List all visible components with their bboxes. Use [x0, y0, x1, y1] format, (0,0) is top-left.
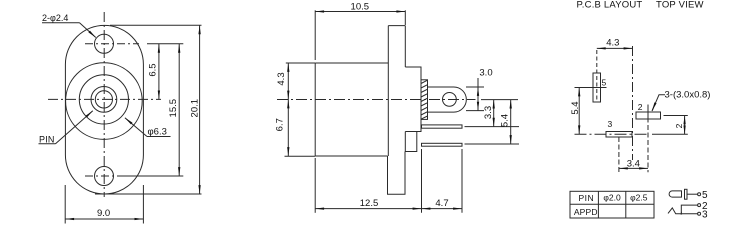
collar hatched — [421, 80, 428, 120]
svg-text:P.C.B LAYOUT: P.C.B LAYOUT — [577, 0, 643, 10]
svg-text:φ2.5: φ2.5 — [630, 192, 648, 202]
svg-text:10.5: 10.5 — [351, 1, 370, 12]
body left — [314, 63, 316, 156]
pin 2 wire — [681, 205, 697, 213]
svg-text:PIN: PIN — [39, 135, 55, 145]
dim 5.4 line — [510, 100, 512, 144]
dim 4.3 line — [287, 63, 289, 100]
top mounting hole — [95, 34, 114, 53]
slot 3 — [606, 132, 632, 138]
slot 5 vertical extension — [596, 50, 598, 102]
pin collar circle — [91, 87, 117, 113]
svg-text:3.4: 3.4 — [627, 158, 640, 169]
collar hatch lines — [421, 80, 428, 119]
barrel outer circle — [66, 63, 143, 140]
dim 3.0 extension top — [466, 86, 484, 88]
extension line flange bottom — [95, 193, 202, 195]
dim 15.5 line — [178, 44, 180, 176]
svg-text:3.0: 3.0 — [479, 67, 492, 78]
svg-text:φ6.3: φ6.3 — [148, 127, 167, 138]
table frame — [570, 191, 654, 218]
svg-text:2: 2 — [638, 102, 643, 112]
slot 5 center tick — [575, 87, 607, 89]
bottom hole centerline — [85, 175, 122, 177]
svg-text:4.3: 4.3 — [606, 38, 619, 49]
body bottom — [315, 155, 387, 157]
slot 3 centerline — [575, 133, 650, 135]
body top — [315, 62, 388, 64]
flange outline (stadium) — [65, 25, 143, 194]
plug flange bar — [685, 189, 688, 199]
body/flange separation — [387, 26, 389, 156]
mounting tab below — [388, 152, 406, 195]
svg-text:3.3: 3.3 — [483, 106, 494, 119]
dim 4.3 extension — [286, 62, 315, 64]
dim 9.0 line — [65, 218, 143, 220]
centerline — [277, 99, 476, 101]
svg-text:φ2.0: φ2.0 — [603, 192, 621, 202]
dim 20.1 line — [199, 25, 201, 194]
extension line bottom hole — [122, 175, 183, 177]
dim 3.3 line — [493, 100, 495, 127]
dim 4.7 line — [422, 208, 463, 210]
label PIN leader — [39, 143, 56, 145]
svg-text:6.5: 6.5 — [147, 63, 158, 76]
dim 3.4 line — [619, 167, 648, 169]
leg B extension — [465, 143, 520, 145]
svg-text:20.1: 20.1 — [190, 99, 201, 118]
pin 3 wire with spring — [668, 208, 698, 214]
vertical centerline — [103, 12, 105, 197]
pin 2 contact tip — [681, 211, 683, 215]
slot 5 — [593, 73, 601, 102]
main centerline — [632, 46, 634, 160]
svg-text:3: 3 — [608, 119, 613, 129]
svg-text:9.0: 9.0 — [97, 208, 110, 219]
label phi6.3 leader — [147, 136, 171, 138]
leg A extension — [465, 126, 520, 128]
flange top — [388, 25, 405, 27]
pin 5 wire — [687, 193, 698, 195]
dim 6.7 extension — [285, 155, 316, 157]
dim 10.5 line — [315, 11, 405, 13]
svg-text:3: 3 — [702, 210, 708, 221]
pin circle — [95, 91, 112, 108]
svg-text:6.7: 6.7 — [275, 118, 286, 131]
terminal 2 — [698, 204, 701, 207]
lug hole — [443, 93, 457, 107]
dim 9.0 extension lines — [64, 185, 66, 224]
dim 6.5 line — [158, 44, 160, 100]
svg-text:5: 5 — [602, 78, 607, 88]
top hole centerline — [85, 43, 139, 45]
svg-text:5.4: 5.4 — [500, 114, 511, 127]
dim 4.3 line — [597, 47, 633, 49]
svg-text:5.4: 5.4 — [570, 101, 581, 114]
step under bushing — [405, 132, 417, 152]
svg-text:TOP VIEW: TOP VIEW — [656, 0, 704, 10]
extension line flange top — [110, 24, 202, 26]
dim 6.7 line — [287, 100, 289, 157]
terminal 5 — [698, 193, 701, 196]
svg-text:3-(3.0x0.8): 3-(3.0x0.8) — [665, 90, 711, 101]
centerline level extension for 3.3/5.4 — [481, 99, 518, 101]
svg-text:4.7: 4.7 — [435, 198, 448, 209]
svg-text:PIN: PIN — [578, 193, 594, 203]
hole circle phi6.3 — [79, 75, 128, 124]
dim 3.0 extension bottom — [466, 110, 484, 112]
dim 3.0 line — [477, 78, 479, 87]
slot 3 extension down — [618, 137, 620, 172]
leg B — [422, 143, 463, 146]
bushing rect — [405, 67, 421, 132]
dim 5.4 line — [578, 88, 580, 135]
plug sleeve — [669, 191, 681, 197]
extension line top hole for 6.5/15.5 — [147, 43, 183, 45]
slot 2 extension down — [647, 125, 649, 172]
flange right edge lower — [404, 132, 406, 152]
terminal 3 — [698, 212, 701, 215]
dim 4.7 extension — [461, 149, 463, 213]
dim 10.5 extension lines — [314, 10, 316, 60]
svg-text:4.3: 4.3 — [276, 72, 287, 85]
svg-text:2-φ2.4: 2-φ2.4 — [42, 13, 68, 23]
svg-text:5: 5 — [702, 190, 708, 201]
dim 2 line — [684, 116, 686, 135]
svg-text:12.5: 12.5 — [360, 198, 379, 209]
dim 12.5 extension lines — [314, 158, 316, 213]
dim 2 extensions — [664, 115, 688, 117]
center pin lug — [428, 87, 467, 112]
horizontal centerline — [48, 98, 161, 100]
flange right edge upper — [404, 26, 406, 67]
label 2-phi2.4 leader — [42, 22, 80, 24]
slot 2 center tick — [647, 105, 649, 123]
dim 12.5 line — [315, 208, 421, 210]
label 3-(3.0x0.8) leader — [652, 95, 665, 111]
bottom mounting hole — [95, 167, 114, 186]
svg-text:2: 2 — [674, 123, 684, 128]
leg A — [422, 125, 463, 128]
svg-text:APPD: APPD — [574, 207, 598, 217]
svg-text:15.5: 15.5 — [168, 99, 179, 118]
slot 2 — [636, 112, 661, 119]
